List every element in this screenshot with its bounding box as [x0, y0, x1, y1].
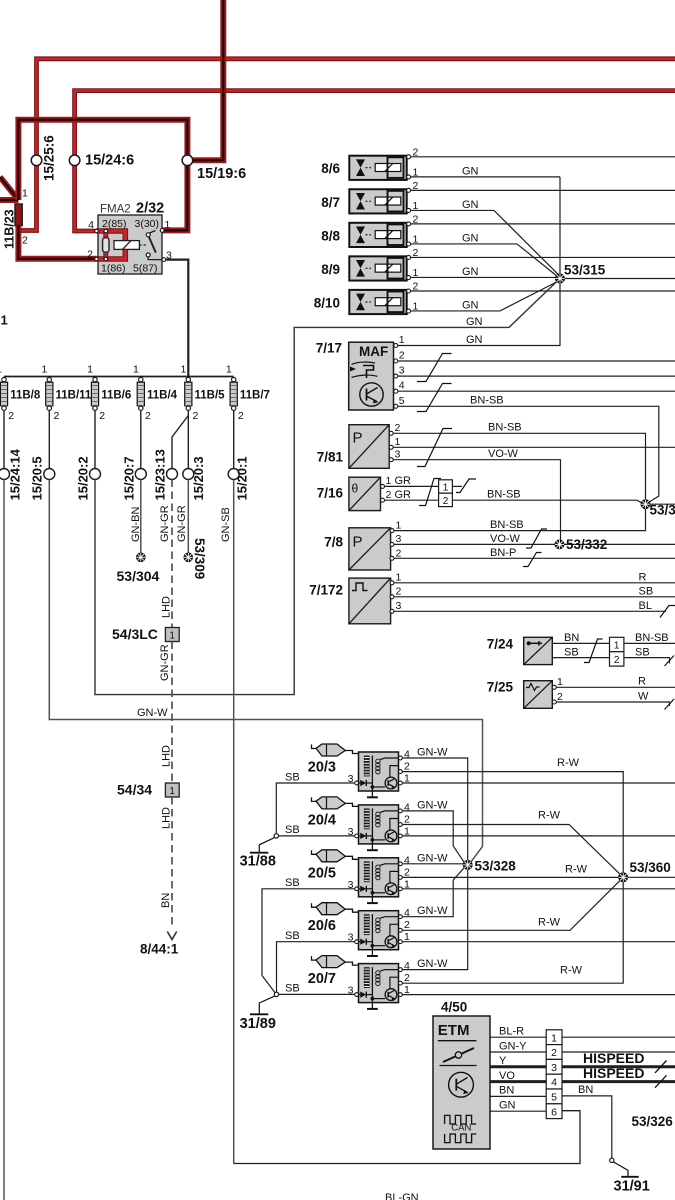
svg-text:GN: GN: [499, 1100, 516, 1112]
svg-text:BN: BN: [564, 632, 579, 644]
relay 2/32 box: [98, 215, 162, 274]
svg-text:GN-GR: GN-GR: [159, 644, 171, 681]
svg-text:15/20:3: 15/20:3: [191, 456, 206, 500]
svg-text:4: 4: [551, 1077, 557, 1089]
svg-text:GN-BN: GN-BN: [130, 507, 142, 543]
svg-text:1: 1: [133, 364, 139, 376]
connector 15/23:13: [153, 449, 178, 500]
ground 31/89: [240, 996, 276, 1032]
svg-text:5: 5: [399, 395, 405, 407]
wire SB 20/7 pin 3 to ground node 31/89: [279, 983, 355, 995]
wire BL-R ETM pin 1 to connector: [490, 1026, 546, 1038]
svg-text:1: 1: [443, 483, 449, 494]
svg-text:2: 2: [404, 919, 410, 931]
slash 7/81 lines: [417, 429, 452, 467]
connector 15/20:2: [76, 456, 101, 500]
wire MAF pin 4 to right edge: [398, 390, 675, 392]
label 7/25: [487, 680, 514, 695]
wire R 7/25 pin 1 to right edge: [556, 676, 675, 688]
svg-text:2: 2: [404, 813, 410, 825]
svg-text:7/17: 7/17: [316, 341, 342, 356]
svg-text:BN: BN: [499, 1085, 514, 1097]
svg-text:GN-Y: GN-Y: [499, 1040, 527, 1052]
svg-text:15/20:5: 15/20:5: [30, 456, 45, 500]
svg-text:1: 1: [0, 364, 2, 376]
svg-text:15/25:6: 15/25:6: [42, 135, 57, 181]
wire below fuse 11B/7: [233, 410, 235, 468]
svg-text:11B/8: 11B/8: [10, 390, 41, 402]
splice 53/332: [555, 537, 607, 552]
connector 7/16 inline boxes: [439, 480, 453, 507]
svg-text:15/24:14: 15/24:14: [8, 448, 23, 500]
svg-text:θ: θ: [352, 482, 359, 496]
svg-text:8/44:1: 8/44:1: [140, 942, 179, 957]
wire below fuse 11B/6: [94, 410, 96, 468]
7/172 pins: [390, 572, 402, 614]
connector 15/20:5: [30, 456, 55, 500]
wire below fuse 11B/11: [48, 410, 50, 468]
wire VO-W 7/81 pin 3 to splice 53/332: [393, 448, 560, 542]
svg-text:R: R: [638, 676, 646, 688]
ground symbol below 20/5: [367, 897, 378, 903]
ground 31/88: [240, 838, 276, 870]
svg-text:5(87): 5(87): [133, 263, 158, 275]
injector 8/6: [321, 146, 418, 180]
ETM transistor circle: [449, 1072, 474, 1097]
spark plug 20/4: [312, 797, 359, 809]
svg-text:1: 1: [396, 572, 402, 584]
svg-text:2: 2: [557, 691, 563, 703]
svg-text:11B/23: 11B/23: [3, 209, 17, 249]
svg-text:3: 3: [396, 533, 402, 545]
fuse 11B/8: [0, 364, 41, 423]
ignition coil 20/7 box: [359, 964, 399, 1003]
wire BN 7/24 to connector: [552, 632, 609, 644]
slash 7/8 line 2: [523, 553, 542, 567]
svg-text:BN-SB: BN-SB: [470, 395, 504, 407]
wire SB 7/172 pin 2 to right edge: [394, 586, 675, 598]
wire BN-P 7/8 pin 2 to right edge: [394, 547, 675, 559]
svg-text:20/6: 20/6: [308, 918, 336, 934]
wire ETM pin 2 to right edge: [562, 1051, 675, 1053]
svg-text:31/89: 31/89: [240, 1016, 276, 1032]
svg-text:SB: SB: [639, 586, 654, 598]
svg-text:15/20:2: 15/20:2: [76, 456, 91, 500]
wire BN-SB 7/24 to right edge: [624, 632, 675, 644]
wire red to 15/24:6 from right edge: [75, 91, 675, 231]
wire 20/5 pin 1 to right edge: [402, 888, 675, 890]
relay pin junction circles: [95, 229, 108, 261]
svg-text:15/23:13: 15/23:13: [153, 449, 168, 500]
wire R-W 20/6 pin 2 to splice 53/360: [402, 877, 623, 930]
wire GR 7/16 pin 1: [385, 475, 439, 487]
relay coil box with diagonal: [114, 241, 139, 250]
label 7/81: [317, 450, 344, 465]
svg-text:15/20:7: 15/20:7: [122, 456, 137, 500]
splice 53/328: [463, 859, 516, 874]
slash 7/8 lines 1-3: [526, 529, 547, 548]
wire GN-W 20/5 pin 4 to splice 53/328: [402, 852, 463, 864]
wire GN-W 20/4 pin 4 to splice 53/328: [402, 799, 464, 862]
svg-text:2: 2: [614, 655, 620, 666]
sensor 7/24 box: [524, 637, 553, 664]
ETM label: [438, 1022, 477, 1041]
relay dashed actuator link: [139, 244, 147, 246]
svg-text:31/91: 31/91: [614, 1179, 650, 1195]
svg-text:4: 4: [404, 960, 410, 972]
wire GN-W 20/3 pin 4 to splice 53/328: [402, 747, 467, 861]
svg-text:BL: BL: [639, 600, 652, 612]
wire SB 20/3 pin 3 to ground node: [276, 771, 354, 833]
arrow to 8/44:1: [140, 932, 179, 957]
svg-text:1: 1: [165, 219, 171, 231]
fuse 11B/5: [180, 364, 225, 423]
svg-text:4: 4: [404, 801, 410, 813]
slash 7/24 lines: [584, 639, 603, 663]
svg-text:7/24: 7/24: [487, 637, 514, 652]
wire R-W 20/3 and 20/7 pin 2 via splice 53/360: [402, 757, 623, 983]
wire MAF pin 2 to right edge: [398, 360, 675, 362]
svg-text:2: 2: [8, 410, 14, 422]
wire red-black feed from left edge to fuse 11B/23 pin 1: [0, 177, 18, 200]
svg-text:2: 2: [395, 422, 401, 434]
svg-text:4: 4: [88, 219, 94, 231]
svg-text:1: 1: [557, 676, 563, 688]
wire 20/4 pin 1 to right edge: [402, 835, 675, 837]
MAF 7/17 box: [349, 342, 394, 410]
svg-text:CAN: CAN: [451, 1122, 471, 1133]
svg-text:54/34: 54/34: [117, 782, 152, 798]
slash 7/16 lines: [419, 479, 441, 506]
wire dashed GN-GR below 54/3LC: [159, 642, 172, 784]
svg-text:7/16: 7/16: [317, 486, 344, 501]
label 7/24: [487, 637, 514, 652]
svg-text:R-W: R-W: [557, 757, 580, 769]
connector 15/25:6: [31, 135, 56, 181]
wire red to 15/25:6 from right edge: [21, 59, 675, 231]
ground symbol below 20/3: [367, 791, 378, 797]
svg-text:GN: GN: [462, 233, 479, 245]
ignition coil 20/3 box: [359, 752, 399, 791]
wire GN 8/7 pin 1 to splice 53/315: [411, 199, 560, 276]
spark plug 20/3: [312, 744, 359, 756]
wire GR 7/16 pin 2: [385, 489, 439, 501]
connector 15/24:6: [69, 153, 134, 169]
spark plug 20/6: [312, 903, 359, 915]
svg-text:2: 2: [22, 235, 28, 247]
svg-text:2: 2: [238, 410, 244, 422]
svg-text:7/25: 7/25: [487, 680, 514, 695]
svg-text:20/4: 20/4: [308, 812, 336, 828]
svg-text:7/8: 7/8: [324, 535, 343, 550]
wire GN 8/10 pin 1 to splice 53/315: [411, 282, 558, 312]
wire GN-W 20/6 pin 4 to splice 53/328: [402, 868, 464, 917]
svg-text:1: 1: [399, 334, 405, 346]
wire 8/8 pin 2 to right edge: [411, 223, 675, 225]
wire 7/16 pin1 continues with slash: [452, 479, 476, 493]
wire below fuse 11B/4: [140, 410, 142, 468]
connector 54/3LC: [112, 626, 179, 642]
fuse bus bar: [4, 376, 234, 378]
label 7/8: [324, 535, 343, 550]
wire BN ETM pin 5 to connector: [490, 1085, 546, 1097]
svg-text:6: 6: [551, 1106, 557, 1118]
splice 53/304: [117, 553, 160, 584]
svg-text:GR: GR: [395, 489, 412, 501]
svg-text:GN-GR: GN-GR: [176, 505, 188, 542]
svg-text:1: 1: [614, 641, 620, 652]
label BL-GN bottom: [385, 1192, 419, 1200]
svg-text:2: 2: [193, 410, 199, 422]
svg-text:P: P: [353, 534, 363, 551]
svg-text:2: 2: [443, 496, 449, 507]
wire SB 7/24 to connector: [552, 646, 609, 658]
svg-text:R-W: R-W: [538, 810, 561, 822]
svg-text:R: R: [639, 572, 647, 584]
label 53/326: [632, 1114, 674, 1129]
svg-text:15/19:6: 15/19:6: [197, 166, 246, 182]
wire SB 20/4 pin 3 to ground node: [279, 824, 355, 836]
svg-text:P: P: [353, 430, 363, 447]
wire red-black 11B/23 pin1 loop to 15/19:6 top rail: [18, 120, 187, 200]
wire 8/10 pin 2 to right edge: [411, 290, 675, 292]
svg-text:VO: VO: [499, 1070, 515, 1082]
wire SB 20/6 pin 3 to ground node 31/89: [277, 930, 355, 992]
svg-text:SB: SB: [285, 930, 300, 942]
svg-text:GN: GN: [466, 334, 483, 346]
splice 53/360: [619, 860, 671, 882]
svg-text:VO-W: VO-W: [490, 533, 521, 545]
wire GN 8/6 pin 1 to splice 53/315: [411, 166, 560, 178]
ETM CAN icon: [445, 1115, 477, 1142]
svg-text:8/9: 8/9: [321, 262, 340, 277]
spark plug 20/5: [312, 850, 359, 862]
relay right pin circles: [160, 229, 166, 262]
wire GN-BN from 15/20:7 to splice 53/304: [130, 480, 142, 554]
svg-text:53/332: 53/332: [566, 537, 607, 552]
svg-text:4: 4: [399, 380, 405, 392]
svg-text:GN: GN: [462, 300, 479, 312]
svg-text:BN: BN: [578, 1084, 593, 1096]
svg-text:BN-P: BN-P: [490, 547, 516, 559]
svg-text:GN-W: GN-W: [417, 905, 448, 917]
svg-text:LHD: LHD: [161, 596, 173, 618]
svg-text:4: 4: [404, 749, 410, 761]
svg-text:2: 2: [99, 410, 105, 422]
svg-text:8/6: 8/6: [321, 161, 340, 176]
svg-text:1: 1: [180, 364, 186, 376]
wire GN-GR from 15/20:3 to splice 53/309: [176, 480, 188, 554]
svg-text:1: 1: [551, 1032, 557, 1044]
wire red 11B/23 pin2 junction: [15, 226, 21, 231]
MAF pins: [394, 334, 405, 408]
svg-text:1(86): 1(86): [101, 263, 126, 275]
wire red-black 11B/23 pin2 to relay pin 2: [18, 231, 96, 259]
svg-text:SB: SB: [564, 646, 579, 658]
20/3 pin circles: [348, 749, 410, 786]
svg-text:11B/4: 11B/4: [147, 390, 178, 402]
svg-text:2: 2: [404, 866, 410, 878]
svg-text:8/7: 8/7: [321, 195, 340, 210]
svg-text:LHD: LHD: [161, 745, 173, 767]
svg-text:BN-SB: BN-SB: [488, 422, 522, 434]
connector 15/20:7: [122, 456, 147, 500]
svg-text:Y: Y: [499, 1055, 507, 1067]
svg-text:2: 2: [54, 410, 60, 422]
label GN on 15/20:2 wire: [466, 316, 483, 328]
relay coil element: [103, 238, 109, 252]
wire relay pin 3 to fuse bus: [166, 260, 189, 377]
svg-text:1: 1: [169, 631, 175, 642]
fuse 11B/7: [226, 364, 270, 423]
svg-text:ETM: ETM: [438, 1022, 470, 1039]
wire splice 53/360 to right edge: [628, 876, 675, 878]
svg-text:GN-GR: GN-GR: [159, 505, 171, 542]
ignition coil 20/4 box: [359, 805, 399, 844]
svg-text:20/7: 20/7: [308, 971, 336, 987]
svg-text:2: 2: [396, 586, 402, 598]
svg-text:31/88: 31/88: [240, 854, 276, 870]
ETM connector boxes 1-6: [546, 1030, 562, 1119]
wire HISPEED ETM pin 3 to right edge: [562, 1050, 675, 1073]
wire SB 7/24 right hook: [624, 646, 674, 666]
relay label FMA2: [100, 204, 131, 216]
relay pin labels: [87, 218, 172, 275]
label 7/17: [316, 341, 342, 356]
svg-text:GN: GN: [462, 266, 479, 278]
svg-text:SB: SB: [285, 771, 300, 783]
wire GN 8/8 pin 1 to splice 53/315: [411, 233, 558, 277]
wire VO-W 7/8 pin 3 through splice 53/332 to right edge: [394, 533, 675, 545]
connector 54/34: [117, 782, 179, 798]
svg-text:R-W: R-W: [565, 863, 588, 875]
label 20/6: [308, 918, 336, 934]
label 20/5: [308, 865, 336, 881]
connector 7/24 inline boxes: [610, 637, 624, 666]
label 7/172: [309, 583, 343, 598]
fuse 11B/6: [87, 364, 131, 423]
injector 8/8: [321, 213, 418, 247]
relay label 2/32: [136, 201, 164, 217]
svg-text:BL-R: BL-R: [499, 1026, 524, 1038]
svg-text:R-W: R-W: [538, 916, 561, 928]
wire 8/7 pin 2 to right edge: [411, 189, 675, 191]
wire 20/3 pin 1 to right edge: [402, 782, 675, 784]
ground symbol below 20/7: [367, 1003, 378, 1009]
wire splice down to 7/8 pin 1 BN-SB: [394, 509, 646, 531]
svg-text:15/20:1: 15/20:1: [235, 456, 250, 500]
wire splice to right edge: [650, 503, 675, 505]
svg-text:2: 2: [404, 972, 410, 984]
connector 15/24:14: [0, 448, 23, 500]
svg-text:3: 3: [396, 600, 402, 612]
fuse 11B/4: [133, 364, 178, 423]
wire 8/9 pin 2 to right edge: [411, 256, 675, 258]
20/5 pin circles: [348, 854, 410, 891]
svg-text:53/326: 53/326: [632, 1114, 674, 1129]
svg-text:BN-SB: BN-SB: [490, 519, 524, 531]
svg-text:HISPEED: HISPEED: [583, 1050, 644, 1066]
fuse 11B/11: [41, 364, 91, 423]
ignition coil 20/5 box: [359, 858, 399, 897]
injector 8/7: [321, 180, 418, 214]
splice 53/309: [184, 538, 207, 579]
injector 8/9: [321, 247, 418, 281]
wire 8/6 pin 2 to right edge: [411, 156, 675, 158]
wire VO ETM pin 4 to connector: [490, 1070, 546, 1082]
svg-text:GN: GN: [462, 166, 479, 178]
label 4/50: [441, 1000, 467, 1015]
wire GN ETM pin 6 to 15/20:1 wire: [234, 1111, 580, 1164]
wire vertical through splice 53/315 to MAF pin 1: [398, 177, 560, 346]
svg-text:VO-W: VO-W: [488, 448, 519, 460]
MAF sensor icon: [350, 362, 378, 378]
connector 15/20:3: [183, 456, 206, 500]
svg-text:BN: BN: [160, 893, 172, 908]
svg-text:GN-W: GN-W: [417, 747, 448, 759]
wire W 7/25 pin 2 with right hook: [556, 691, 674, 710]
wire below fuse 11B/5: [187, 410, 189, 468]
svg-text:3: 3: [551, 1062, 557, 1074]
svg-text:GN-W: GN-W: [417, 799, 448, 811]
wire 7/81 pin 1 to right edge: [393, 446, 675, 448]
ignition coil 20/6 box: [359, 911, 399, 950]
wire GN from 15/20:2 to splice 53/315: [95, 282, 557, 695]
label 20/7: [308, 971, 336, 987]
wire BL 7/172 pin 3 with slash: [394, 600, 675, 618]
wire 20/6 pin 1 to right edge: [402, 941, 675, 943]
svg-text:1: 1: [41, 364, 47, 376]
svg-text:2: 2: [87, 249, 93, 261]
svg-text:15/24:6: 15/24:6: [85, 153, 134, 169]
wire below fuse 11B/8: [3, 410, 5, 468]
MAF transistor circle: [360, 383, 383, 406]
svg-text:BN-SB: BN-SB: [635, 632, 669, 644]
svg-text:HISPEED: HISPEED: [583, 1065, 644, 1081]
label GN-W: [137, 707, 168, 719]
wire SB 20/5 pin 3 to ground node 31/89: [262, 877, 355, 992]
ground symbol below 20/4: [367, 844, 378, 850]
svg-text:54/3LC: 54/3LC: [112, 626, 158, 642]
svg-text:FMA2: FMA2: [100, 204, 131, 216]
relay switch: [146, 231, 162, 260]
svg-text:3: 3: [395, 449, 401, 461]
svg-text:2: 2: [399, 350, 405, 362]
wire GN-Y ETM pin 2 to connector: [490, 1040, 546, 1052]
20/7 pin circles: [348, 960, 410, 997]
ETM 4/50 box: [433, 1016, 490, 1149]
wire BN-SB MAF pin 5 to splice: [398, 395, 659, 503]
slash MAF lines 4-5: [417, 384, 452, 412]
wire dashed BN below 54/34 to 8/44:1: [160, 797, 173, 929]
7/25 pins: [552, 676, 563, 704]
ground symbol below 20/6: [367, 950, 378, 956]
svg-text:2: 2: [551, 1047, 557, 1059]
7/8 pins: [390, 520, 402, 561]
svg-text:GN: GN: [462, 199, 479, 211]
svg-text:11B/11: 11B/11: [56, 390, 92, 402]
svg-text:LHD: LHD: [161, 807, 173, 829]
svg-text:7/172: 7/172: [309, 583, 343, 598]
svg-text:1: 1: [169, 786, 175, 797]
svg-text:4: 4: [404, 907, 410, 919]
svg-text:4/50: 4/50: [441, 1000, 467, 1015]
wire MAF pin 3 to right edge: [398, 375, 675, 377]
wire R-W 20/4 pin 2 to splice 53/360: [402, 810, 623, 878]
MAF label: [359, 344, 388, 359]
splice 53/3xx right: [641, 500, 675, 518]
wire 20/7 pin 1 to right edge: [402, 994, 675, 996]
